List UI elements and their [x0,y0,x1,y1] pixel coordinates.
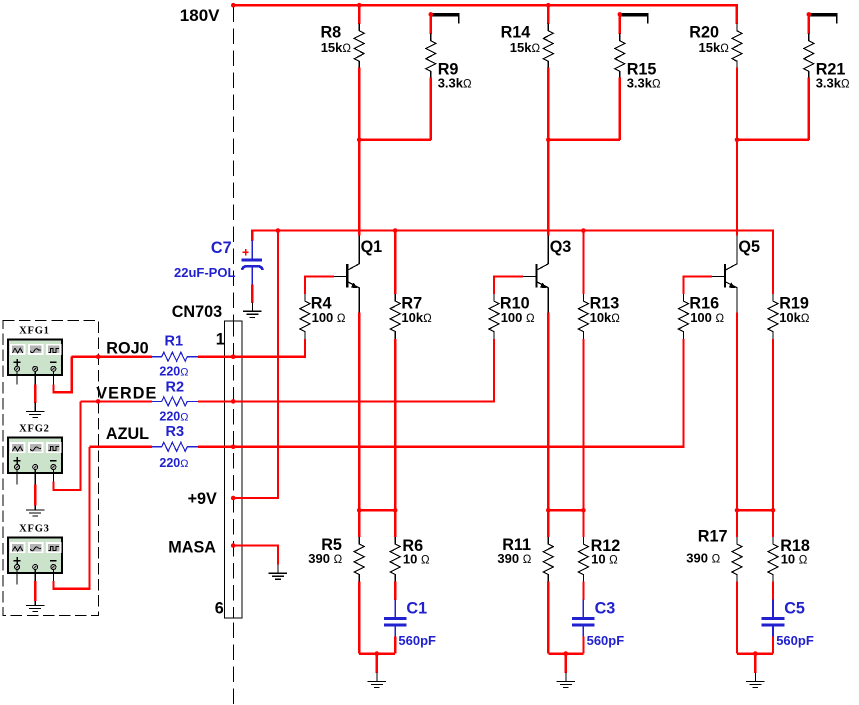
junction pin 2 [231,399,236,404]
junction emitter node right Q1 [393,508,398,513]
instrument XFG1 [8,325,62,375]
wire ground stub Q3 [565,654,567,673]
svg-text:390 Ω: 390 Ω [308,551,342,566]
wire collector riser Q1 [358,140,360,236]
resistor R10 [489,294,535,339]
svg-text:390 Ω: 390 Ω [497,551,531,566]
wire AZUL left [89,446,151,448]
ground emitter network Q1 [368,673,386,688]
svg-text:+9V: +9V [188,490,217,508]
resistor R6 [390,537,430,582]
wire XFG1 plus lead [16,372,18,385]
wire XFG1 minus [53,357,71,393]
wire ROJ0 left [72,356,152,358]
svg-text:R2: R2 [166,379,185,395]
wire R8 bottom [358,67,360,139]
junction pin 1 [231,354,236,359]
capacitor C3 [572,599,624,648]
wire R20 bottom [736,67,738,139]
svg-text:1: 1 [216,330,225,348]
wire XFG1 common lead [34,372,36,403]
wire R13 bottom [582,339,584,510]
junction top rail left [231,3,236,8]
node AZUL label [106,425,149,443]
wire collector node Q1 [359,139,431,141]
svg-text:10 Ω: 10 Ω [781,551,808,566]
wire 180V top rail [233,5,737,24]
junction collector node Q5 [735,138,740,143]
ground XFG1 [26,403,44,418]
wire ground node Q5 [737,652,773,654]
node VERDE label [96,384,157,402]
junction R7 top [393,228,398,233]
wire XFG3 plus lead [16,570,18,585]
resistor R19 [768,294,810,339]
svg-text:100 Ω: 100 Ω [690,310,724,325]
wire collector node Q3 [548,139,620,141]
svg-text:220Ω: 220Ω [159,456,188,470]
svg-text:AZUL: AZUL [106,425,149,443]
svg-text:3.3kΩ: 3.3kΩ [438,75,472,90]
junction ROJ0 boundary [96,354,101,359]
junction emitter node right Q3 [581,508,586,513]
svg-text:R3: R3 [166,424,185,440]
junction R21 terminal [807,12,812,17]
wire VERDE left [80,400,151,402]
resistor R5 [308,536,364,582]
capacitor C1 [384,599,436,648]
junction R13 top [581,228,586,233]
resistor R12 [578,537,620,582]
svg-text:C1: C1 [406,599,427,617]
svg-text:180V: 180V [180,6,220,25]
wire ground node Q3 [548,652,583,654]
XFG instruments dashed enclosure [3,320,98,615]
svg-text:100 Ω: 100 Ω [312,310,346,325]
wire ground stub Q5 [754,654,756,673]
wire R11 top [547,510,549,537]
resistor R2 [152,379,198,423]
pin 1 label [216,330,225,348]
svg-text:6: 6 [215,599,224,617]
transistor Q1 [334,235,382,312]
wire emitter Q1 [358,312,360,510]
junction emitter node left Q3 [546,508,551,513]
wire ground stub Q1 [376,654,378,673]
junction R15 terminal [618,12,623,17]
wire VERDE right [198,339,494,402]
svg-text:C5: C5 [784,599,805,617]
junction emitter node left Q1 [357,508,362,513]
wire R17 top [736,510,738,537]
svg-text:XFG1: XFG1 [19,325,50,336]
wire emitter node Q5 [737,509,773,511]
wire R19 top [772,231,774,294]
svg-text:10 Ω: 10 Ω [591,551,618,566]
wire R7 top [394,231,396,294]
svg-text:10kΩ: 10kΩ [779,310,810,325]
wire emitter node Q3 [548,509,583,511]
wire R21 bottom [808,78,810,140]
wire R6 top [394,510,396,537]
resistor R18 [768,537,810,582]
wire R8 top lead [358,5,360,24]
dashed board boundary line [232,6,234,705]
wire C5 bottom [772,636,774,653]
wire R9 bottom [430,78,432,140]
terminal bar above R9 [431,13,460,24]
junction collector node Q3 [546,138,551,143]
wire R14 bottom [547,67,549,139]
svg-text:22uF-POL: 22uF-POL [174,265,235,280]
node +9V label [188,490,217,508]
wire C1 bottom [394,636,396,653]
wire R12 bottom [582,582,584,600]
junction top rail R8 [357,3,362,8]
wire collector node Q5 [737,139,809,141]
svg-text:ROJ0: ROJ0 [106,340,148,358]
wire R18 bottom [772,582,774,600]
resistor R9 [426,34,472,91]
junction +9V riser [276,228,281,233]
resistor R20 [689,24,742,69]
wire +9V rail [252,231,773,294]
svg-text:10kΩ: 10kΩ [590,310,621,325]
wire ground node Q1 [359,652,395,654]
wire XFG3 common lead [34,570,36,601]
ground MASA [269,565,287,580]
svg-text:Q3: Q3 [550,238,572,256]
ground XFG3 [26,597,44,612]
svg-text:220Ω: 220Ω [159,409,188,423]
wire emitter Q3 [547,312,549,510]
ground emitter network Q3 [557,673,575,688]
wire collector riser Q3 [547,140,549,236]
wire XFG2 plus lead [16,470,18,485]
svg-text:15kΩ: 15kΩ [699,40,730,55]
svg-text:Q1: Q1 [361,238,383,256]
instrument XFG3 [8,524,62,574]
resistor R17 [686,527,742,581]
wire +9V pin [233,231,278,499]
svg-text:Q5: Q5 [738,238,760,256]
connector CN703 label [172,303,222,321]
wire R5 top [358,510,360,537]
resistor R11 [497,536,553,582]
junction pin 3 [231,445,236,450]
svg-text:15kΩ: 15kΩ [321,40,352,55]
wire R18 top [772,510,774,537]
ground emitter network Q5 [746,673,764,688]
pin 6 label [215,599,224,617]
svg-text:R17: R17 [698,527,728,545]
svg-text:220Ω: 220Ω [159,365,188,379]
junction emitter node left Q5 [735,508,740,513]
junction collector node Q1 [357,138,362,143]
resistor R15 [615,34,661,91]
terminal bar above R21 [809,13,838,24]
node ROJ0 label [106,340,148,358]
transistor Q3 [523,235,571,312]
wire MASA pin [233,546,278,565]
transistor Q5 [712,235,760,312]
resistor R14 [501,24,554,69]
node 180V label [180,6,220,25]
wire R15 top lead [619,14,621,33]
svg-text:10kΩ: 10kΩ [401,310,432,325]
svg-text:100 Ω: 100 Ω [501,310,535,325]
junction ground node Q1 [375,651,380,656]
resistor R13 [578,294,620,339]
junction R9 terminal [429,12,434,17]
wire R11 bottom [547,582,549,654]
svg-text:3.3kΩ: 3.3kΩ [816,75,850,90]
wire AZUL right [198,339,684,447]
svg-text:10 Ω: 10 Ω [403,551,430,566]
wire R12 top [582,510,584,537]
terminal bar above R15 [620,13,649,24]
svg-text:3.3kΩ: 3.3kΩ [627,75,661,90]
wire emitter Q5 [736,312,738,510]
resistor R21 [804,34,850,91]
svg-text:XFG2: XFG2 [19,424,50,435]
junction ground node Q3 [564,651,569,656]
capacitor C7 [174,239,263,285]
wire base Q3 [494,276,523,294]
wire R6 bottom [394,582,396,600]
junction top rail R14 [546,3,551,8]
wire emitter node Q1 [359,509,395,511]
wire C7 bottom [251,285,253,303]
resistor R4 [300,294,346,339]
wire R21 top lead [808,14,810,33]
instrument XFG2 [8,424,62,474]
svg-text:R1: R1 [165,334,184,350]
svg-text:CN703: CN703 [172,303,222,321]
wire XFG2 common lead [34,470,36,506]
wire R13 top [582,231,584,294]
svg-text:560pF: 560pF [398,633,436,648]
svg-text:XFG3: XFG3 [19,524,50,535]
resistor R3 [152,424,198,470]
svg-text:560pF: 560pF [776,633,814,648]
svg-text:MASA: MASA [168,538,216,556]
wire collector riser Q5 [736,140,738,236]
svg-text:C3: C3 [595,599,616,617]
junction pin 5 [231,543,236,548]
wire R7 bottom [394,339,396,510]
wire XFG3 minus [53,447,89,589]
ground XFG2 [26,501,44,516]
wire ROJ0 right [198,339,305,357]
ground C7 [243,303,261,318]
resistor R1 [152,334,198,379]
node MASA label [168,538,216,556]
wire R14 top lead [547,5,549,24]
svg-text:390 Ω: 390 Ω [686,550,720,565]
svg-text:C7: C7 [211,239,232,257]
wire R9 top lead [430,14,432,33]
svg-text:15kΩ: 15kΩ [510,40,541,55]
wire R17 bottom [736,582,738,654]
wire R15 bottom [619,78,621,140]
wire XFG2 minus [53,401,80,490]
svg-text:VERDE: VERDE [96,384,157,402]
resistor R8 [320,24,364,69]
wire base Q1 [305,276,334,294]
connector CN703 body [224,321,242,618]
svg-text:560pF: 560pF [587,633,625,648]
capacitor C5 [762,599,814,648]
junction VERDE boundary [96,399,101,404]
wire R19 bottom [772,339,774,510]
junction ground node Q5 [753,651,758,656]
wire base Q5 [684,276,712,294]
wire R5 bottom [358,582,360,654]
resistor R7 [390,294,432,339]
wire C3 bottom [582,636,584,653]
junction emitter node right Q5 [771,508,776,513]
junction pin 4 [231,496,236,501]
resistor R16 [679,294,725,339]
